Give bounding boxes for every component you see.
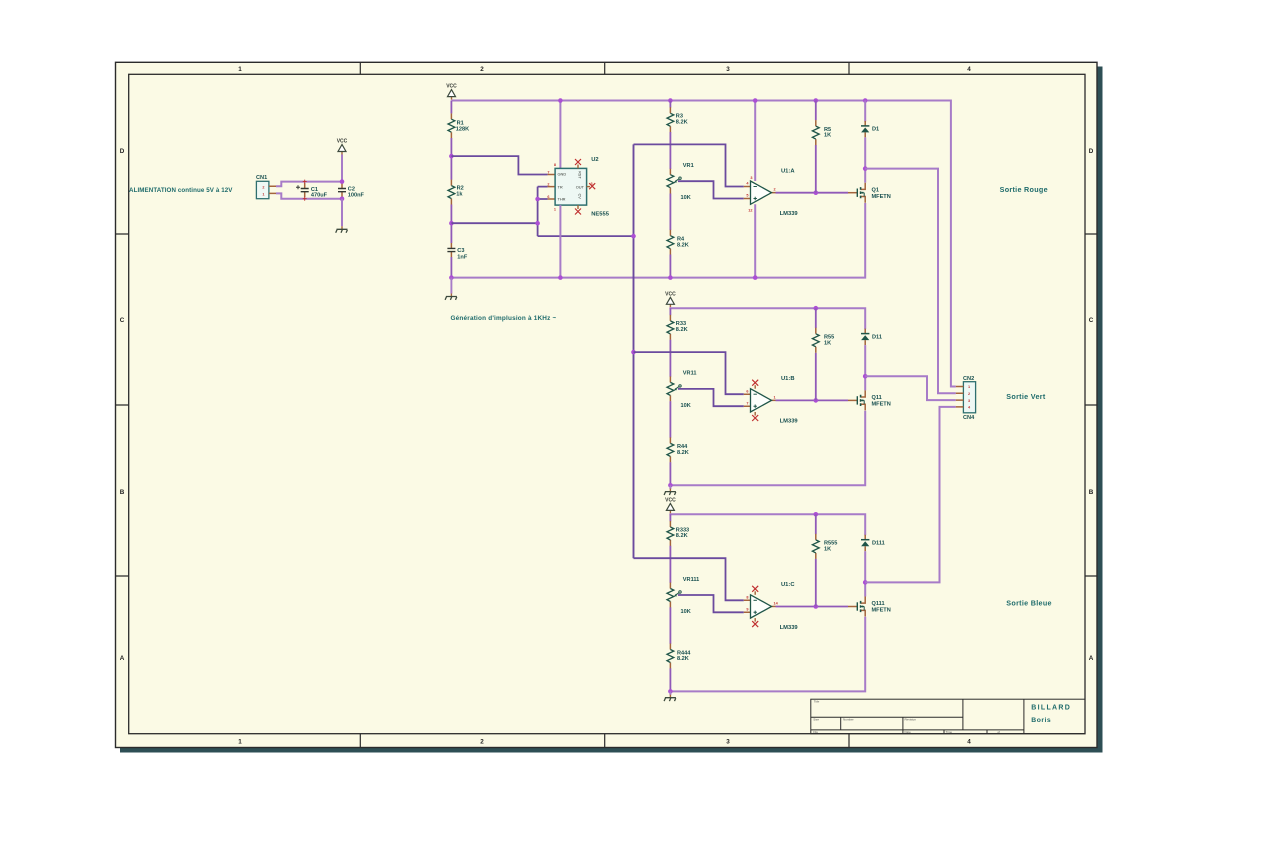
no-connect op-amp V- ch3 [754,618,756,622]
junction output node ch1 [863,166,868,171]
junction rail R5 ch2 [814,306,819,311]
ground channel 2 [664,489,676,495]
svg-text:B: B [120,489,125,496]
junction rail R5 ch3 [814,512,819,517]
junction output node ch2 [863,374,868,379]
svg-text:of: of [998,730,1001,734]
svg-text:LM339: LM339 [780,625,799,631]
svg-text:GND: GND [558,172,567,177]
junction bus 555 [631,234,636,239]
svg-text:CN2: CN2 [963,376,974,382]
wire R1 top [450,101,452,114]
svg-text:THR: THR [558,197,566,202]
wire divider 3a [669,546,671,583]
555 CV no-connect [577,205,579,209]
svg-text:A: A [120,655,125,662]
wire bus tap ch2 [634,352,744,394]
wire DIS route [451,156,547,174]
wire 555 to bus [538,235,634,237]
junction R1 R2 DIS [449,154,454,159]
potentiometer VR111 [667,583,681,608]
svg-text:3: 3 [726,739,730,746]
svg-text:Date: Date [905,730,912,734]
resistor R55 [815,308,817,400]
svg-text:1: 1 [968,385,970,389]
no-connect op-amp V+ ch3 [754,591,756,595]
op-amp U1:C [744,595,776,618]
capacitor C1 [301,183,309,197]
svg-text:Number: Number [843,718,854,722]
junction rail D1 [863,98,868,103]
wire wiper route ch2 [678,389,744,406]
junction TR tie left [449,221,454,226]
svg-text:LM339: LM339 [780,419,799,425]
transistor Q11 [848,390,865,410]
wire VCC rail channel 2 [670,307,865,329]
junction gnd R4 [668,275,673,280]
svg-text:4: 4 [967,66,971,73]
svg-text:Title: Title [814,700,820,704]
svg-text:CV: CV [578,194,583,200]
wire C3 bottom [450,257,452,278]
svg-text:1: 1 [238,66,242,73]
svg-text:Q1: Q1 [872,187,879,193]
junction op-amp V+ [753,98,758,103]
svg-text:6: 6 [547,195,549,199]
wire CN1 pin2 to bottom rail [276,193,342,198]
wire diode to drain ch3 [864,551,866,596]
svg-text:Time: Time [946,730,953,734]
svg-text:CN1: CN1 [256,175,267,181]
wire VCC rail channel 3 [670,513,865,535]
junction rail R3 [668,98,673,103]
wire bus tap red [634,144,744,186]
wire divider 1c [669,255,671,278]
svg-text:4: 4 [967,739,971,746]
wire R1 bottom to R2 [450,138,452,180]
no-connect op-amp V+ ch2 [754,385,756,389]
wire gnd stub ch3 [669,691,671,695]
svg-text:1: 1 [238,739,242,746]
svg-text:8.2K: 8.2K [676,327,688,333]
svg-text:8.2K: 8.2K [677,450,689,456]
svg-text:7: 7 [547,170,549,174]
capacitor C2 [338,183,346,197]
svg-text:8: 8 [746,596,748,600]
wire diode to drain ch1 [864,137,866,182]
capacitor C3 [447,243,455,257]
resistor R444 [667,644,674,669]
junction rail R5 [814,98,819,103]
ground 555 [445,294,457,300]
junction THR [535,197,540,202]
wire bus triangle [633,144,635,558]
ground rail channel red [451,203,865,278]
svg-text:MFETN: MFETN [872,608,891,614]
wire divider 2c [669,462,671,485]
svg-text:8.2K: 8.2K [676,533,688,539]
wire divider 3c [669,668,671,691]
svg-text:1: 1 [554,208,556,212]
svg-text:Boris: Boris [1031,717,1051,724]
junction C2 top [340,179,345,184]
wire output blue to CN2 [865,407,956,583]
frame row ticks [116,234,1098,576]
wire 555 V+ pin 8 [559,101,561,169]
svg-text:D11: D11 [872,334,882,340]
resistor R2 [448,180,455,205]
sheet background [116,62,1098,747]
svg-text:10K: 10K [681,609,691,615]
sheet shadow [1097,67,1103,753]
resistor R555 [815,514,817,606]
junction output R55 [814,398,819,403]
svg-text:ALIMENTATION continue 5V à 12V: ALIMENTATION continue 5V à 12V [129,187,233,194]
resistor R44 [667,437,674,462]
resistor R1 [448,113,455,138]
inner border frame [129,74,1085,733]
ground input filter [336,226,348,232]
power symbol VCC channel 3 [665,497,676,513]
wire divider 2a [669,340,671,377]
svg-text:7: 7 [746,401,748,405]
svg-text:D: D [120,148,125,155]
svg-text:2: 2 [480,66,484,73]
wire D1 top [864,101,866,122]
svg-text:3: 3 [750,176,752,180]
potentiometer VR11 [667,376,681,401]
op-amp U1:B [744,389,776,412]
svg-text:RST: RST [578,171,583,179]
diode D11 [861,329,869,346]
svg-text:Q11: Q11 [872,395,882,401]
op-amp U1:A [744,181,776,204]
svg-text:10K: 10K [681,403,691,409]
svg-text:OUT: OUT [576,184,585,189]
wire VCC rail channel red [452,101,956,387]
title block [811,699,1085,734]
svg-text:VR1: VR1 [683,163,694,169]
svg-text:3: 3 [968,399,970,403]
wire divider 1a [669,132,671,169]
svg-text:LM339: LM339 [780,211,799,217]
junction 555 V+ [558,98,563,103]
svg-text:2: 2 [774,188,776,192]
svg-text:MFETN: MFETN [872,402,891,408]
svg-text:MFETN: MFETN [872,194,891,200]
potentiometer VR1 [667,169,681,194]
connector CN1 [256,181,269,198]
wire C2 bottom to ground [341,199,343,227]
svg-text:128K: 128K [456,126,469,132]
wire 555 GND pin1 [559,205,561,278]
junction gnd rail ch3 [668,689,673,694]
wire divider 3b [669,607,671,644]
wire op-amp power down [754,204,756,277]
wire gnd stub 555 [450,278,452,294]
resistor R3 [669,101,671,108]
svg-text:1: 1 [262,193,264,197]
wire TR THR tie [451,187,547,237]
wire bus tap ch3 [634,558,744,600]
svg-text:D: D [1089,148,1094,155]
svg-text:File: File [813,730,818,734]
svg-text:100nF: 100nF [348,193,365,199]
wire VCC to rail [341,155,343,182]
wire op-amp output ch2 [776,399,849,401]
555 RST no-connect [577,165,579,169]
junction C2 bottom [340,196,345,201]
wire wiper route ch3 [678,595,744,612]
wire CN1 pin1 to top rail [276,182,342,187]
svg-text:2: 2 [547,183,549,187]
diode D1 [861,121,869,137]
svg-text:6: 6 [746,389,748,393]
svg-text:Q111: Q111 [872,601,885,607]
resistor R33 [669,308,671,315]
svg-text:1K: 1K [824,546,831,552]
transistor Q1 [848,183,865,203]
svg-text:C3: C3 [457,248,464,254]
no-connect op-amp V- ch2 [754,412,756,416]
wire output green to CN2 [865,376,956,400]
ground rail ch3 [670,617,865,692]
svg-text:C: C [1089,317,1094,324]
svg-text:8: 8 [554,163,556,167]
pin end C1 bottom [303,197,307,201]
svg-text:U1:B: U1:B [781,376,795,382]
svg-text:9: 9 [746,608,748,612]
555 OUT no-connect [587,186,590,188]
svg-text:BILLARD: BILLARD [1031,704,1071,711]
svg-text:VR11: VR11 [683,371,697,377]
op-amp U2 NE555 box [555,168,587,205]
resistor R5 [815,101,817,193]
wire op-amp output ch1 [776,192,849,194]
junction tie bottom [535,221,540,226]
svg-text:U2: U2 [591,157,598,163]
junction 555 gnd [558,275,563,280]
junction C3 gnd [449,275,454,280]
frame column ticks [360,62,849,747]
svg-text:Sortie Bleue: Sortie Bleue [1006,599,1052,608]
svg-text:10K: 10K [681,195,691,201]
svg-text:5: 5 [746,194,748,198]
svg-text:D1: D1 [872,127,879,133]
svg-text:Sortie Rouge: Sortie Rouge [1000,185,1048,194]
svg-text:C: C [120,317,125,324]
svg-text:8.2K: 8.2K [677,656,689,662]
junction output node ch3 [863,580,868,585]
wire gnd stub ch2 [669,485,671,489]
resistor R333 [669,514,671,521]
wire op-amp output ch3 [776,606,849,608]
svg-text:3: 3 [726,66,730,73]
svg-text:NE555: NE555 [591,212,610,218]
svg-text:1: 1 [774,395,776,399]
diode D111 [861,535,869,552]
svg-text:12: 12 [748,209,752,213]
junction bus green [631,350,636,355]
wire output red to CN2 [865,169,956,394]
svg-text:CN4: CN4 [963,415,975,421]
svg-text:C2: C2 [348,186,355,192]
junction gnd rail ch2 [668,483,673,488]
wire divider 2b [669,401,671,438]
svg-text:1K: 1K [824,340,831,346]
svg-text:1k: 1k [456,191,463,197]
power symbol VCC input [337,139,348,155]
svg-text:U1:A: U1:A [781,168,795,174]
svg-text:D111: D111 [872,540,885,546]
pin end C1 top [303,180,307,184]
wire R2 bottom [450,205,452,244]
svg-text:8.2K: 8.2K [677,242,689,248]
connector CN2 [963,382,975,413]
junction op-amp V- [753,275,758,280]
junction output R555 [814,604,819,609]
svg-text:2: 2 [480,739,484,746]
svg-text:Génération d'implusion à 1KHz: Génération d'implusion à 1KHz ~ [451,315,557,322]
junction output R5 [814,190,819,195]
wire divider 1b [669,194,671,231]
svg-text:1nF: 1nF [457,255,468,261]
svg-text:A: A [1089,655,1094,662]
power symbol VCC channel 2 [665,291,676,307]
svg-text:8.2K: 8.2K [676,119,688,125]
svg-text:Size: Size [813,718,819,722]
ground channel 3 [664,695,676,701]
svg-text:TR: TR [558,184,563,189]
svg-text:470uF: 470uF [311,193,328,199]
power symbol VCC 555 [446,84,457,100]
svg-text:2: 2 [262,186,264,190]
svg-text:B: B [1089,489,1094,496]
svg-text:Revision: Revision [905,718,917,722]
wire wiper route ch1 [678,181,744,198]
svg-text:Sortie Vert: Sortie Vert [1006,392,1046,401]
svg-text:VR111: VR111 [683,577,700,583]
resistor R4 [667,230,674,255]
transistor Q111 [848,597,865,617]
svg-text:2: 2 [968,392,970,396]
wire op-amp power up [754,101,756,182]
wire diode to drain ch2 [864,345,866,390]
svg-text:U1:C: U1:C [781,582,795,588]
ground rail ch2 [670,411,865,486]
svg-text:1K: 1K [824,133,831,139]
